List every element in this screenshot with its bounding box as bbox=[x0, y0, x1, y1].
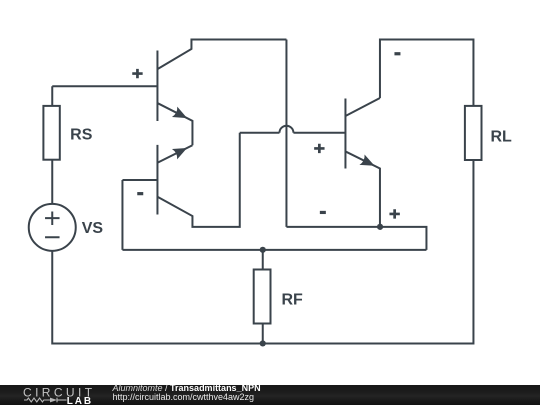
svg-text:VS: VS bbox=[82, 220, 104, 237]
svg-text:RF: RF bbox=[281, 291, 303, 308]
svg-text:LAB: LAB bbox=[67, 396, 93, 405]
svg-text:RS: RS bbox=[70, 126, 93, 143]
svg-text:RL: RL bbox=[490, 128, 512, 145]
